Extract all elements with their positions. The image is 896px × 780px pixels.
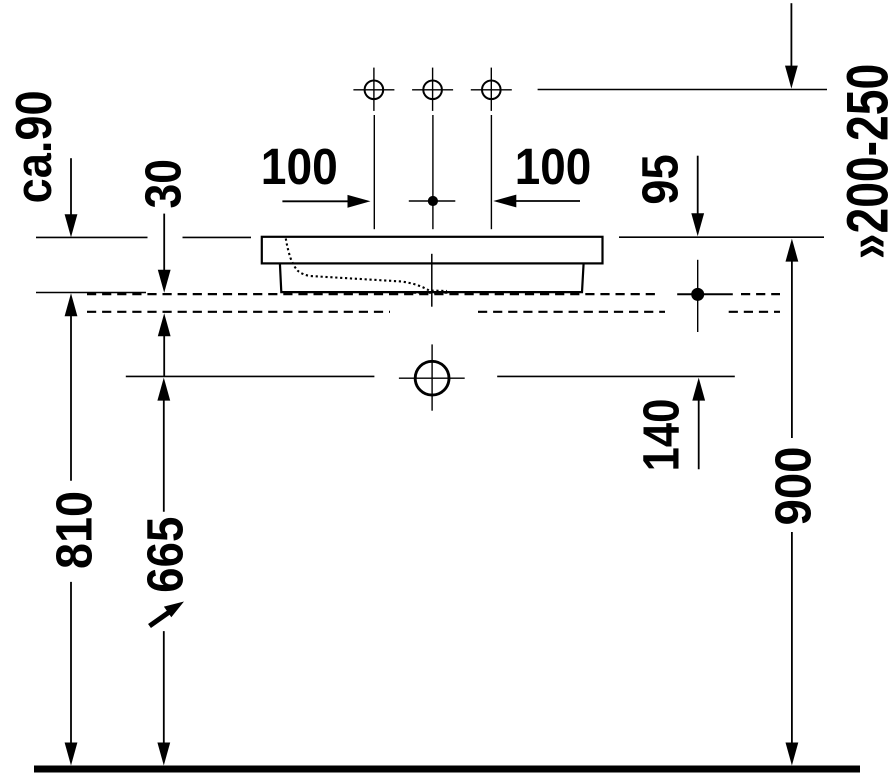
svg-text:665: 665 bbox=[137, 517, 194, 593]
node: faucet hole circle 3 bbox=[482, 81, 501, 100]
wire: countertop surface dashed line bbox=[87, 293, 780, 295]
wire: drain circle vertical cross bbox=[431, 344, 433, 410]
dimension 810 arrow up bbox=[70, 315, 72, 481]
dimension ca.90 arrow down bbox=[70, 158, 72, 216]
wire: countertop surface extension line left bbox=[36, 292, 146, 294]
dimension 665 line lower segment and floor arrow bbox=[163, 631, 165, 744]
wire: faucet hole 2 extension line bbox=[432, 115, 434, 229]
wire: faucet hole 3 extension line bbox=[490, 115, 492, 229]
label 100 left bbox=[261, 138, 338, 195]
label 900 bbox=[765, 447, 822, 526]
wire: drain circle horizontal cross bbox=[399, 377, 465, 379]
svg-text:ca.90: ca.90 bbox=[5, 90, 62, 203]
svg-text:100: 100 bbox=[261, 138, 338, 195]
svg-text:30: 30 bbox=[135, 159, 192, 209]
washbasin centre line bbox=[431, 254, 433, 307]
dimension 200-250 arrow down bbox=[790, 3, 792, 66]
svg-text:95: 95 bbox=[632, 154, 689, 205]
wire: rim-top extension line left segment A bbox=[36, 236, 148, 238]
label 200-250 bbox=[835, 64, 896, 260]
node: faucet reference point dot bbox=[428, 196, 438, 206]
washbasin drain flange dotted bbox=[408, 291, 455, 293]
dimension 140 arrow up bbox=[698, 399, 700, 469]
wire: measuring point vertical cross bbox=[697, 260, 699, 332]
washbasin overflow dotted contour bbox=[286, 239, 447, 292]
wire: drain height line left bbox=[126, 375, 375, 377]
node: faucet hole circle 2 bbox=[423, 81, 442, 100]
dimension 100 right arrow left bbox=[515, 200, 580, 202]
wire: rim-top extension line right bbox=[619, 236, 824, 238]
washbasin bowl cross-section bbox=[280, 263, 584, 292]
wire: faucet hole 2 cross bbox=[412, 68, 453, 111]
label 140 bbox=[633, 399, 690, 472]
wire: rim-top extension line left segment B bbox=[183, 236, 252, 238]
dimension 900 line lower segment and floor arrow bbox=[791, 532, 793, 744]
wire: drain height line right bbox=[497, 375, 735, 377]
dimension 900 arrow up bbox=[791, 260, 793, 438]
label ca.90 bbox=[5, 90, 62, 203]
svg-text:140: 140 bbox=[633, 399, 690, 472]
wire: faucet hole 1 extension line bbox=[373, 115, 375, 229]
height adjust slanted arrow marker bbox=[150, 612, 171, 627]
wire: faucet reference point horizontal cross bbox=[409, 200, 456, 202]
svg-text:100: 100 bbox=[515, 138, 592, 195]
wire: faucet hole 3 cross bbox=[471, 68, 512, 111]
wire: solid segment through measuring point bbox=[677, 293, 733, 295]
dimension 810 line lower segment and floor arrow bbox=[70, 582, 72, 744]
washbasin rim cross-section bbox=[262, 237, 603, 264]
wire: faucet hole 1 cross bbox=[353, 68, 394, 111]
node: faucet hole circle 1 bbox=[365, 81, 384, 100]
node: countertop measuring point dot bbox=[691, 288, 704, 301]
wire: countertop underside dashed line bbox=[87, 311, 780, 313]
dimension 30 arrow up below countertop bbox=[163, 335, 165, 376]
ground: floor bar bbox=[34, 766, 860, 773]
label 100 right bbox=[515, 138, 592, 195]
dimension 95 arrow down bbox=[697, 156, 699, 214]
wire: faucet connection height line bbox=[538, 89, 827, 91]
dimension 665 arrow up at drain line bbox=[163, 399, 165, 512]
label 95 bbox=[632, 154, 689, 205]
label 30 bbox=[135, 159, 192, 209]
svg-text:810: 810 bbox=[46, 491, 103, 569]
svg-text:»200-250: »200-250 bbox=[835, 64, 896, 260]
node: drain outlet circle bbox=[415, 361, 449, 395]
label 810 bbox=[46, 491, 103, 569]
svg-text:900: 900 bbox=[765, 447, 822, 526]
label 665 bbox=[137, 517, 194, 593]
dimension 30 arrow down bbox=[163, 214, 165, 271]
dimension 100 left arrow right bbox=[282, 200, 349, 202]
